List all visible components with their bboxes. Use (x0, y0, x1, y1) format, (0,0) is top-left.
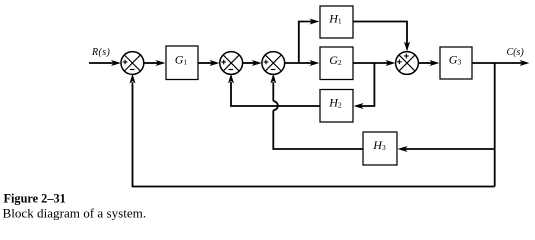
svg-text:Block diagram of a system.: Block diagram of a system. (3, 205, 147, 220)
svg-text:Figure 2–31: Figure 2–31 (4, 191, 66, 205)
svg-text:C(s): C(s) (507, 47, 525, 58)
svg-text:R(s): R(s) (91, 47, 111, 58)
